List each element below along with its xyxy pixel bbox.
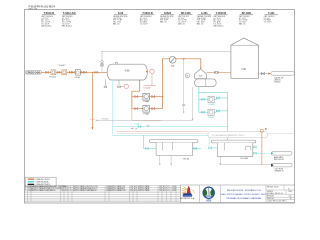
wire: existing crude line (pink) xyxy=(117,130,208,132)
svg-text:FV-061: FV-061 xyxy=(75,77,81,79)
teal valve on supply main xyxy=(138,125,141,127)
wire: teal branch main xyxy=(113,127,210,147)
wire: pump B discharge to header xyxy=(150,108,163,110)
drum top manhole stub xyxy=(115,62,117,64)
teal inlet valve right basin xyxy=(209,147,212,149)
wire: teal stub into right basin xyxy=(211,147,217,149)
svg-text:ESCALA : IND-PL-01: ESCALA : IND-PL-01 xyxy=(267,192,283,195)
svg-text:3: 3 xyxy=(25,188,26,190)
pressure gauge PI at drum bottom xyxy=(120,84,128,88)
wire: teal drop to left basin xyxy=(144,135,146,148)
wire: teal supply main xyxy=(113,126,228,128)
wire: pump 1 discharge to teal riser xyxy=(214,98,227,99)
teal suction valve pump 2 xyxy=(202,111,205,113)
node: sewer off-page connector xyxy=(271,163,292,172)
svg-text:L.P: L.P xyxy=(69,190,71,192)
drum bottom drain valve right xyxy=(118,80,121,88)
teal discharge valve pump 2 xyxy=(217,110,220,112)
teal outlet valve left basin xyxy=(194,147,197,149)
revision table xyxy=(25,185,181,201)
valve on feed line xyxy=(81,71,84,73)
wire: teal pump 1 suction stub xyxy=(199,98,208,100)
equipment spec block T-321 xyxy=(264,12,278,23)
small red marker above capsule end xyxy=(265,128,267,129)
pump P-06B xyxy=(143,106,150,116)
svg-text:L.P: L.P xyxy=(167,188,169,190)
wire: left basin drain drops xyxy=(159,155,172,165)
agitator motor M for S-07 xyxy=(185,73,189,77)
wire: pump discharge transfer line xyxy=(162,59,200,68)
svg-text:RETURN 02: RETURN 02 xyxy=(274,159,284,161)
wire: drum outlet down to pump suction header xyxy=(132,80,140,109)
teal inlet valve left basin xyxy=(146,147,149,149)
wire: discharge riser xyxy=(161,59,163,109)
wire: pump A discharge to header xyxy=(150,96,163,98)
equipment spec block SP-1406 xyxy=(178,12,192,25)
svg-text:MAT. CS: MAT. CS xyxy=(113,22,120,25)
basin RO-06 (covered pit) xyxy=(149,140,198,161)
strainer on feed line xyxy=(75,70,81,80)
svg-text:UTB: UTB xyxy=(206,198,211,202)
teal outlet valves right basin xyxy=(253,146,256,148)
suction valve pump B xyxy=(135,107,138,110)
wire: warm-up return line xyxy=(95,87,193,121)
equipment spec block T-0612-A/C xyxy=(62,12,76,27)
arrow marker on existing line xyxy=(131,128,133,130)
wire: cooling water drop from drum to utility main xyxy=(112,80,114,127)
equipment spec block S-B23 xyxy=(160,12,174,23)
wire: teal return to heat medium header xyxy=(256,152,271,154)
wire: branch line down to utility area xyxy=(183,59,185,112)
drawing title text (blue) xyxy=(221,189,268,200)
svg-text:MAT. A-285-C: MAT. A-285-C xyxy=(213,24,224,27)
svg-text:L.P: L.P xyxy=(69,188,71,190)
wire: teal package top header xyxy=(198,92,227,94)
wire: oily water drain header xyxy=(220,164,271,166)
drum side nozzle xyxy=(146,71,148,73)
svg-text:LG-0610: LG-0610 xyxy=(144,87,151,89)
contractor logo UTB (blue ring with green landscape) xyxy=(203,187,214,202)
svg-text:MAT. A-285-C: MAT. A-285-C xyxy=(41,24,52,27)
wire: pump B suction stub xyxy=(132,108,143,110)
wire: main feed line to drum V-06 xyxy=(41,71,108,73)
node: branch tee on transfer line xyxy=(183,58,185,60)
equipment spec block T-0610-B xyxy=(140,12,154,25)
svg-text:4: 4 xyxy=(25,186,26,188)
svg-text:RO-06B: RO-06B xyxy=(241,158,249,160)
pump P-07A (teal service) xyxy=(208,96,214,106)
svg-text:S-07: S-07 xyxy=(199,76,203,78)
svg-text:* T-0610 *: * T-0610 * xyxy=(57,65,66,67)
valve on feed line xyxy=(57,71,60,73)
svg-text:4″-P-0616-AA1-H LINEA EXIST.: 4″-P-0616-AA1-H LINEA EXIST. CRUDO xyxy=(212,134,245,137)
svg-text:REV. 4 08: REV. 4 08 xyxy=(29,8,37,10)
equipment spec block T-0610-B xyxy=(213,12,227,27)
sample valve on branch line xyxy=(183,104,185,106)
node: flow arrow into off-page connector xyxy=(268,73,271,75)
valve on tank rundown xyxy=(261,72,264,75)
level instrument LG on drum right head xyxy=(144,69,156,86)
svg-text:L.P: L.P xyxy=(167,190,169,192)
teal discharge valve pump 1 xyxy=(217,97,220,99)
svg-text:REFICAR·NORTE - MONTAJES U-16: REFICAR·NORTE - MONTAJES U-16 xyxy=(227,189,262,192)
equipment spec block S-03 xyxy=(113,12,128,25)
svg-text:FECHA : 08-03: FECHA : 08-03 xyxy=(267,186,278,189)
node: heat medium off-page connector xyxy=(271,152,292,161)
company logo (sunburst and derrick emblem) xyxy=(180,186,195,200)
pressure control valve PV on vent riser xyxy=(101,60,104,66)
tank T-06 (cone roof tank) xyxy=(231,38,259,78)
valve on feed line xyxy=(46,71,49,73)
equipment spec block SP-1801 xyxy=(239,12,253,25)
suction valve pump A xyxy=(135,95,138,98)
wire: minimum-flow line under pumps xyxy=(132,109,162,120)
valve on feed line xyxy=(69,71,72,73)
wire: vent riser from feed line xyxy=(101,52,103,73)
svg-text:SEWER 05: SEWER 05 xyxy=(275,171,284,173)
svg-text:LINEA DE CRUDO: LINEA DE CRUDO xyxy=(36,178,51,181)
svg-text:SISTEMAS DE BOMBADO MATERIAS: SISTEMAS DE BOMBADO MATERIAS xyxy=(226,197,262,200)
wire: right basin drain drop xyxy=(219,156,221,165)
svg-text:RO-06: RO-06 xyxy=(183,158,190,160)
drum V-06 (horizontal vessel) xyxy=(107,64,147,80)
node: discharge header junction xyxy=(162,96,163,97)
svg-text:L.P: L.P xyxy=(69,186,71,188)
small instrument bubble on supply main xyxy=(147,125,149,127)
valve on feed line at drum inlet xyxy=(95,71,98,73)
svg-text:P-06A: P-06A xyxy=(144,100,150,103)
svg-text:P-07B: P-07B xyxy=(209,117,215,119)
svg-text:10-03: 10-03 xyxy=(172,190,176,192)
svg-text:MAT. CS: MAT. CS xyxy=(178,22,185,25)
svg-text:MAT. A-285-C: MAT. A-285-C xyxy=(62,24,73,27)
title block xyxy=(181,185,295,203)
svg-text:T-06: T-06 xyxy=(241,69,246,71)
wire: pump 2 discharge to teal riser xyxy=(214,111,227,112)
pump P-06A xyxy=(143,93,150,103)
svg-text:T.D. 150 F: T.D. 150 F xyxy=(140,23,148,25)
wire: tank rundown line xyxy=(258,73,269,75)
valve on feed line xyxy=(72,71,75,73)
line designation capsule on existing line xyxy=(208,132,268,138)
hopper S-07 xyxy=(195,69,207,79)
svg-text:PV-0610: PV-0610 xyxy=(49,77,56,79)
wire: vapor equalizing line to tank T-06 xyxy=(102,51,231,53)
wire: tank area drain drop xyxy=(261,130,264,165)
wire: pump A suction stub xyxy=(132,96,143,98)
svg-text:ECOPETROL S.A.: ECOPETROL S.A. xyxy=(180,197,195,200)
svg-text:V-06: V-06 xyxy=(125,70,130,72)
wire: teal pump 2 suction stub xyxy=(199,111,208,113)
valve on feed line xyxy=(84,71,87,73)
drum bottom drain valve left xyxy=(104,79,107,88)
teal suction valve pump 1 xyxy=(202,98,205,100)
pump P-07B (teal service) xyxy=(208,109,214,119)
svg-text:DIAG. JUNTOS SACADO CRUDO 06-0: DIAG. JUNTOS SACADO CRUDO 06-0614 - RECT… xyxy=(221,193,268,196)
svg-text:MAT. CS: MAT. CS xyxy=(239,22,246,25)
control valve station PV-0610 on feed line xyxy=(49,70,56,79)
svg-text:22-06: 22-06 xyxy=(172,188,176,190)
svg-text:15-09: 15-09 xyxy=(172,186,176,188)
svg-text:L.P: L.P xyxy=(167,186,169,188)
node: feed stream off-page flag xyxy=(25,70,41,74)
svg-text:DWG No.: DWG No. xyxy=(267,198,275,200)
spec break marker on drain line xyxy=(90,119,94,121)
svg-text:CRUDO 5420: CRUDO 5420 xyxy=(26,71,40,75)
svg-text:MAT. CS: MAT. CS xyxy=(197,22,204,25)
svg-text:P-06B: P-06B xyxy=(144,113,150,115)
wire: teal stub into left basin xyxy=(148,148,156,150)
wire: left basin teal return xyxy=(193,148,201,150)
wire: S-07 outlet to tank T-06 xyxy=(206,71,231,73)
wire: drain line down from feed line xyxy=(91,72,93,127)
legend box xyxy=(26,177,57,186)
svg-text:S-06: S-06 xyxy=(171,65,175,67)
svg-text:T.D. 150 F: T.D. 150 F xyxy=(264,22,272,24)
equipment spec block A-301 xyxy=(197,12,212,25)
valve on S-07 outlet xyxy=(215,71,218,73)
title block data fields xyxy=(266,185,295,203)
svg-text:P-07A: P-07A xyxy=(209,103,215,106)
node: off-page connector (crude oil to storage) xyxy=(271,72,295,84)
svg-text:4″-CS: 4″-CS xyxy=(134,124,140,126)
svg-text:TK5620: TK5620 xyxy=(274,81,280,83)
svg-text:MAT. CS: MAT. CS xyxy=(160,21,167,24)
svg-text:1-0616-PR-PL-001 REV 4: 1-0616-PR-PL-001 REV 4 xyxy=(267,201,287,203)
inline strainer S-06 (circle with slash) xyxy=(169,56,176,67)
equipment spec block T-0614-B xyxy=(41,12,55,27)
discharge valve pump A xyxy=(152,95,155,98)
package base drum under S-07 xyxy=(195,79,217,87)
node: drain tee junction xyxy=(92,72,93,73)
svg-text:LINEA DE AGUA: LINEA DE AGUA xyxy=(36,181,50,184)
discharge valve pump B xyxy=(152,107,155,110)
wire: teal suction header from package base xyxy=(198,87,200,113)
wire: teal discharge riser down to supply main xyxy=(227,93,229,141)
metering station FE on feed line xyxy=(62,70,67,75)
grade / ground reference line xyxy=(117,133,208,135)
svg-text:2: 2 xyxy=(25,190,26,192)
basin RO-06B (covered pit) xyxy=(211,140,256,160)
